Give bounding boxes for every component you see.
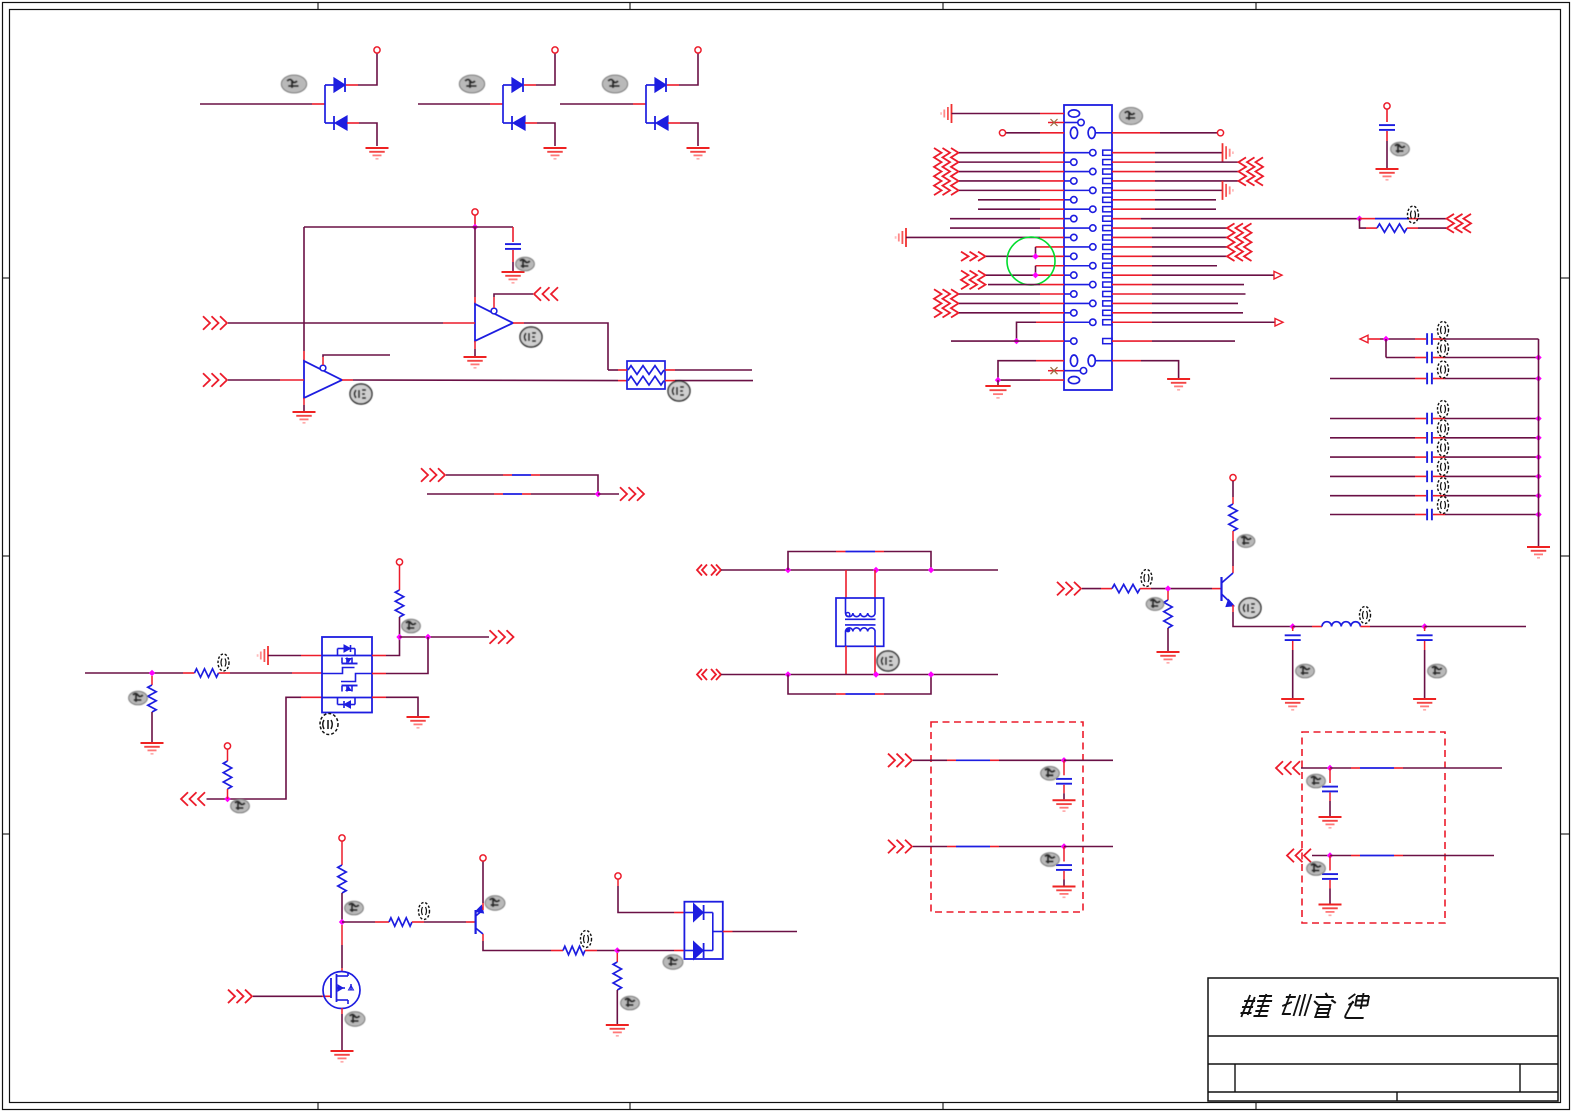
wire J1 left row21 [951,340,1040,342]
junction Q3 out b [425,634,431,640]
ground U2 [293,411,316,413]
designator blob C1 [516,257,535,271]
wire to ground J1 [997,380,999,385]
wire J1 left row6 [978,199,1040,201]
designator blob R11 [621,996,640,1010]
port U2 input >>> [203,373,210,387]
port net pair in >>> [421,468,428,482]
wire box2 cap2 gnd [1329,880,1331,889]
ground box2 cap1 [1319,816,1342,818]
wire J1 right row3 [1112,171,1155,173]
port U1 enable <<< [534,287,541,301]
wire J1 left row4 [959,180,1040,182]
wire J1 left row9 [950,227,1040,229]
wire VCC rail [304,226,513,228]
wire R2 to Q3 [219,672,231,674]
ground D3 [687,147,710,149]
ground Q4 [331,1050,354,1052]
wire C2 top [1386,109,1388,122]
capacitor CB2 label [1438,420,1449,437]
junction box2 row1 [1327,765,1333,771]
junction box2 row2 [1327,852,1333,858]
wire R8 top [341,841,343,865]
power terminal C2 [1384,103,1390,109]
wire A1-A2 [1385,339,1387,358]
power terminal D1 [374,47,380,53]
wire R5 out [1140,588,1151,590]
wire J1 left row17 [959,302,1040,304]
power terminal D3 [695,47,701,53]
wire box1 cap1 top [1063,760,1065,775]
wire J1 right row6 [1112,199,1155,201]
wire C4 top [1424,627,1426,632]
wire Q5 collector [482,934,484,941]
wire Q3 pin3 [301,696,322,698]
wire U2 enable [322,357,324,365]
wire pair out [598,493,619,495]
junction R3 [224,796,230,802]
capacitor CB1 label [1438,401,1449,418]
wire box1 row1 [913,759,947,761]
wire pair bottom [427,493,494,495]
junction bus A3 [1535,375,1541,381]
designator blob U1 [520,327,542,347]
ports J1 left rows1-5 >>> [934,148,959,195]
ground R6 [1157,651,1180,653]
title block [1208,978,1558,1101]
wire J1 right row12 [1112,255,1152,257]
label R10 [581,931,592,948]
ECO markup circle [1007,237,1055,285]
wire nc stub bottom [1048,370,1064,372]
resistor R10 [563,946,585,954]
transformer T1 [836,598,884,646]
wire R1 top [151,676,153,685]
label R2 [218,654,229,671]
junction C4 [1421,623,1427,629]
designator blob D4 [663,955,683,969]
junction J1 gnd [995,377,1001,383]
dual ESD diode D2 [418,53,555,146]
wire J1 left row19 [1036,321,1064,323]
power terminal row3 left [999,130,1005,136]
ports J1 right rows2-4 <<< [1239,157,1264,185]
port bi top [697,565,702,576]
wire row3 left [1040,132,1064,134]
capacitor CB6 label [1438,497,1449,514]
no-connect X bottom [1051,367,1058,374]
wire Q5 emitter [482,903,484,910]
transistor Q2 [1222,573,1235,607]
wire J1 left row10 [906,236,1040,238]
junction bot a [785,671,791,677]
J1 pin oval bottom [1068,377,1079,384]
wire U1 input [228,322,443,324]
capacitor C1 [505,243,521,245]
wire box1 row2 [913,846,947,848]
wire J1 top oval [952,113,1041,115]
power terminal D2 [552,47,558,53]
wire R3 bottom [227,789,229,799]
capacitor Cb2 [1056,864,1072,866]
DNI box 1 [931,722,1083,912]
wire Q2 emitter [1232,605,1234,612]
ground cap bus [1527,546,1550,548]
ground C2 [1376,168,1399,170]
junction top b [873,567,879,573]
wire U1 output [513,322,524,324]
junction R1 [149,670,155,676]
port Q4 gate >>> [228,990,235,1004]
wire box2 row1 bead [1330,767,1351,769]
pin arrow in A1 [1360,335,1368,343]
ground R11 [606,1024,629,1026]
ground J1 left [985,385,1010,387]
wire cap bus [1538,339,1540,546]
wire J1 right row1 [1112,152,1155,154]
wire R-row8 out [1407,227,1418,229]
wire J1 right row19 [1112,321,1152,323]
capacitor Cb1 [1056,778,1072,780]
wire cap A1 [1368,338,1380,340]
wire Q4 gate [253,995,322,997]
designator blob C4 [1428,664,1447,678]
wire box2 row2 bead [1330,855,1351,857]
wire J1 right row17 [1112,302,1152,304]
ground D1 [366,147,389,149]
buffer U1 [475,304,513,341]
capacitor CA2 label [1438,340,1449,357]
J1 pin ovals bottom row [1070,355,1077,366]
J1 pin ovals row3 [1070,127,1077,138]
wire box1 cap2 top [1063,847,1065,862]
wire box1 row2 out [1064,846,1113,848]
ground box1 cap2 [1053,886,1076,888]
wire Q3 pin5 [372,673,386,675]
junction bus B2 [1535,435,1541,441]
resistor R7 [1229,504,1237,531]
wire row3 right [1112,132,1160,134]
wire cap B1 [1330,418,1415,420]
designator blob J1 [1119,108,1142,125]
designator blob Q2 [1239,598,1261,618]
wire FB1 out [1418,218,1446,220]
wire box1 cap1 gnd [1063,785,1065,794]
wire T1 pin1 [845,570,847,598]
designator blob Cb1 [1041,767,1060,781]
wire J1 right row10 [1112,236,1152,238]
resistor R9 [389,918,412,926]
resistor R6 [1164,600,1172,628]
wire box2 cap2 top [1329,856,1331,871]
junction Q4 drain [339,919,345,925]
wire C2 bottom [1386,131,1388,141]
port net pair out >>> [620,487,627,501]
wire cap B6 [1330,514,1415,516]
wire J1 left row16 [959,293,1040,295]
port Q3 out <<< [181,792,188,806]
wire Q4 source [341,1008,343,1014]
designator blob R8 [345,901,364,915]
dual diode D4 [684,902,722,960]
power terminal R3 [224,743,230,749]
gnd symbol rotated row10 [905,228,907,247]
wire J1 left row18 [959,312,1040,314]
ports J1 left rows16-18 >>> [934,289,959,317]
label R5 [1141,570,1152,587]
capacitor C3 [1285,634,1301,636]
wire box2 row2 [1312,855,1330,857]
capacitor CA3 label [1438,361,1449,378]
resistor R2 [195,669,219,677]
junction bus B1 [1535,415,1541,421]
resistor R1 [148,685,156,712]
wire bottom oval [1040,379,1064,381]
ground box2 cap2 [1319,904,1342,906]
wire bottom bypass [788,675,836,695]
wire top main [721,569,998,571]
designator blob R7 [1237,535,1255,548]
ground C1 [502,271,525,273]
wire J1 left row13 [1036,265,1065,267]
ferrite bead FB1 [1360,218,1376,220]
wire nc stub top [1048,122,1064,124]
wire C1 lead [512,227,514,242]
wire U1 power pin [474,227,476,297]
junction bus B5 [1535,493,1541,499]
label bead FB1 [1408,206,1419,223]
label R9 [419,903,430,920]
wire J1 right row7 [1112,208,1155,210]
connector J1 body [1064,105,1112,390]
gnd symbol rotated right row1 [1222,143,1224,162]
junction A1 [1383,336,1389,342]
designator blob Cc2 [1307,862,1326,876]
designator blob R6 [1146,598,1164,611]
designator blob T1 [877,651,899,671]
junction bus A2 [1535,354,1541,360]
port box2 row1 <<< [1276,761,1283,775]
wire J1 right row11 [1112,246,1152,248]
MOSFET Q4 [323,972,360,1009]
wire cap B4 [1330,475,1415,477]
wire R6 top [1167,591,1169,600]
dual ESD diode D1 [200,53,377,146]
wire pair top [446,474,503,476]
capacitor C2 [1379,124,1395,126]
junction R6 [1165,585,1171,591]
wire J1 right row18 [1112,312,1152,314]
port Q3 out >>> [490,630,497,644]
junction box1 row1 [1061,757,1067,763]
designator blob R1 [129,691,148,705]
junction row14 [1032,272,1038,278]
wire cap B2 [1330,437,1415,439]
port box1 row2 >>> [888,840,895,854]
wire R9 out [412,921,424,923]
port J1 left row12 >>> [961,252,969,261]
power terminal Q5 [480,855,486,861]
designator blob RP1 [668,381,690,401]
wire R11-D4 [617,950,674,952]
wire J1 right row4 [1112,180,1155,182]
designator blob R3 [231,799,250,813]
pin arrow row19 [1275,318,1283,326]
junction row12 [1032,253,1038,259]
wire J1 left row15 [988,284,1040,286]
ground C4 [1413,698,1436,700]
wire T1 pin2 [874,570,876,598]
power terminal D4 [615,873,621,879]
junction bot c [928,671,934,677]
ground J1 right [1167,378,1190,380]
junction VCC rail [472,224,478,230]
wire J1 right row8 [1112,218,1141,220]
power terminal VCC buffers [472,209,478,215]
wire R11 top [616,953,618,962]
wire J1 right row9 [1112,227,1152,229]
wire R3 top [227,749,229,761]
designator label Q3 [320,714,338,735]
ground D2 [544,147,567,149]
junction row19-21 [1013,338,1019,344]
designator blob R4 [402,619,421,633]
junction Q3 out a [396,634,402,640]
J1 pin circle nc-bottom [1080,368,1086,374]
wire U1 enable [493,297,495,308]
wire RP1a left stub [608,369,618,371]
gnd symbol rotated Q3 pin1 [267,646,269,665]
resistor RP1a [628,366,664,375]
wire R7 bottom [1232,531,1234,541]
wire bottom row right [1112,360,1141,362]
wire box2 cap1 top [1329,768,1331,783]
wire VCC stub [474,215,476,227]
capacitor CB5 label [1438,478,1449,495]
wire RP1a right [665,369,675,371]
wire box1 row1 out [1064,759,1113,761]
designator blob C3 [1296,664,1315,678]
junction C3 [1290,623,1296,629]
junction top a [785,567,791,573]
wire R4 bottom [399,617,401,637]
power terminal R4 [396,559,402,565]
ground box1 cap1 [1053,799,1076,801]
capacitor C4 [1417,634,1433,636]
designator blob D2 [459,75,484,93]
buffer U2 [304,361,342,398]
port Q2 in >>> [1057,582,1064,596]
ground R1 [141,742,164,744]
wire J1 left row2 [959,161,1040,163]
company name text [1240,993,1370,1018]
wire T1 pin3 [845,646,847,675]
resistor RP1b [628,376,664,385]
wire box1 cap2 gnd [1063,871,1065,880]
transistor Q5 (PNP) [476,906,484,935]
junction pair [595,491,601,497]
wire J1 left row12 [986,255,1036,257]
junction box1 row2 [1061,843,1067,849]
designator blob Cb2 [1041,853,1060,867]
port box2 row2 <<< [1287,849,1294,863]
designator blob D1 [281,75,306,93]
wire J1 left row14 [986,274,1036,276]
wire Q4 drain [341,925,343,945]
wire D4 out [723,931,733,933]
wire cap A3 [1330,378,1415,380]
J1 pin circle nc-top [1078,119,1084,125]
port J1 left row14-15 >>> [961,270,969,289]
power terminal R8 [339,835,345,841]
wire J1 right row16 [1112,293,1152,295]
wire J1 left row1 [959,152,1040,154]
gnd symbol rotated (top-left) [951,104,953,123]
ports J1 right rows9-12 <<< [1227,223,1252,261]
wire U2 power pin [303,227,305,351]
wire R9 in [342,921,375,923]
resistor R11 [613,962,621,990]
inductor L1 [1322,622,1360,627]
wire Q3 pin4 [372,696,386,698]
wire D4 top [617,879,619,886]
wire C1 to ground [512,250,514,262]
wire cap A2 [1386,357,1415,359]
designator blob Cc1 [1307,774,1326,788]
wire Q3 out [400,636,490,638]
junction bot b [873,671,879,677]
wire R7 top [1232,481,1234,497]
wire J1 right row2 [1112,161,1155,163]
wire Q2 in [1082,588,1101,590]
ground Q3 pin4 [407,716,430,718]
wire cap B5 [1330,495,1415,497]
ground U1 [464,356,487,358]
designator blob Q4 [345,1012,365,1026]
wire J1 right row5 [1112,189,1155,191]
pin arrow row14 [1274,271,1282,279]
wire U2 output [342,379,353,381]
wire R4 top [399,565,401,590]
wire top bypass [788,552,836,571]
wire J1 right row15 [1112,284,1152,286]
wire C3 top [1292,627,1294,632]
capacitor CA1 label [1438,322,1449,339]
designator blob U2 [350,384,372,404]
wire U2 input [228,379,280,381]
capacitor CB4 label [1438,458,1449,475]
resistor R4 [395,590,403,617]
wire RP1b right [665,380,675,382]
port box1 row1 >>> [888,754,895,768]
port row8a <<< [1464,214,1472,233]
wire cap B3 [1330,456,1415,458]
dual MOSFET Q3 [322,637,372,713]
gnd symbol rotated right row5 [1222,181,1224,200]
wire R10 out [585,950,597,952]
dual ESD diode D3 [560,53,698,146]
wire U2 gnd pin [303,398,305,405]
no-connect X top [1051,119,1058,126]
wire bottom row left [1036,360,1064,362]
wire L1 out [1360,626,1370,628]
wire T1 pin4 [874,646,876,675]
resistor R-row8 [1377,224,1407,232]
wire R8 bottom [341,893,343,922]
junction row8 [1356,215,1362,221]
resistor R8 [338,865,346,893]
wire R6 gnd [1167,628,1169,651]
